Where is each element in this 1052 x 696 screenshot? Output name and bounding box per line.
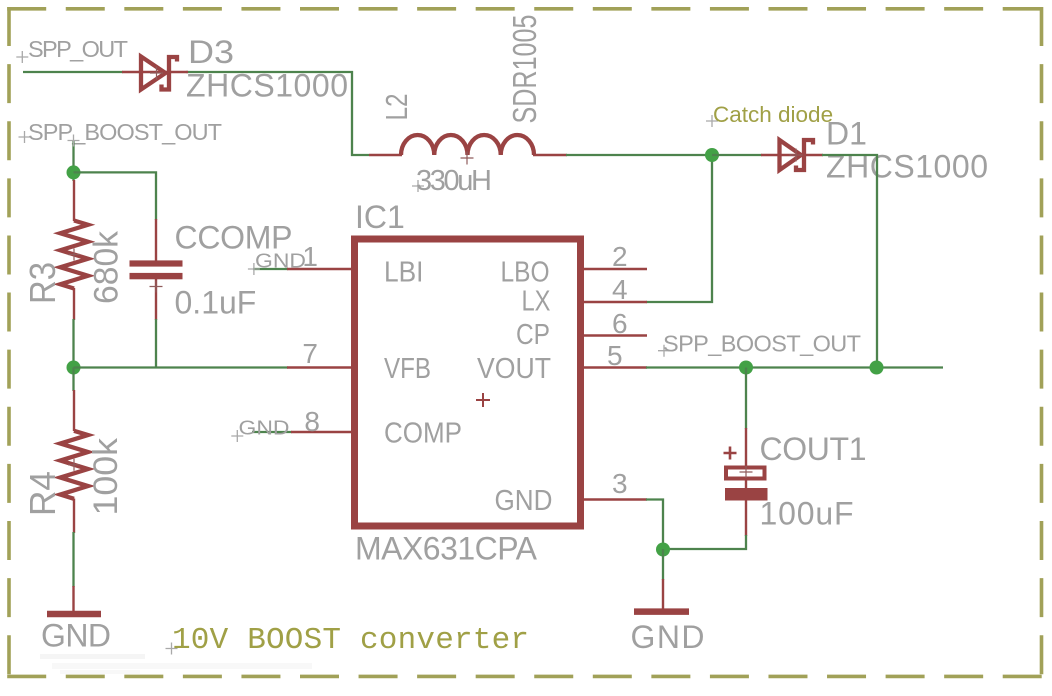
capacitor COUT1 (polarized) [724,428,768,536]
pin 4 LX lead [584,301,647,303]
diode D3 [122,57,188,90]
svg-text:SPP_BOOST_OUT: SPP_BOOST_OUT [28,119,222,145]
svg-text:0.1uF: 0.1uF [175,285,257,321]
ground symbol (right) [634,579,689,612]
svg-text:R3: R3 [22,262,63,304]
svg-text:4: 4 [612,274,628,305]
wire junction to ground [662,549,664,580]
svg-text:100k: 100k [87,437,125,516]
diode D1 (catch diode) [761,140,823,170]
wire net LX: L2 to junction to pin 4 [566,155,712,302]
svg-text:6: 6 [612,308,628,339]
wire net SPP_OUT left segment [23,71,123,73]
pin 6 CP lead [584,334,647,336]
wire COUT1 bottom branch [663,535,746,549]
svg-text:COMP: COMP [384,418,462,450]
svg-text:GND: GND [255,250,306,273]
pin 1 LBI stub [253,268,351,270]
svg-text:3: 3 [612,468,628,499]
wire net VFB [74,366,289,368]
svg-text:10V BOOST converter: 10V BOOST converter [172,623,529,658]
wire to CCOMP branch [74,172,157,220]
wire R3 to VFB junction [72,319,74,368]
wire net SPP_BOOST_OUT (VOUT) [646,366,943,368]
capacitor CCOMP [130,219,183,320]
svg-text:100uF: 100uF [760,496,854,532]
svg-text:330uH: 330uH [416,165,492,197]
svg-text:2: 2 [612,241,628,272]
svg-text:SPP_BOOST_OUT: SPP_BOOST_OUT [663,331,861,357]
pin 8 COMP stub [252,431,351,433]
svg-text:LX: LX [522,286,551,318]
svg-text:680k: 680k [88,230,126,304]
pin 7 VFB lead [287,366,351,368]
junction VOUT/D1 node [870,361,884,375]
faint erased text ghost [40,654,312,674]
svg-text:1: 1 [302,241,318,272]
svg-text:MAX631CPA: MAX631CPA [355,531,538,567]
svg-text:LBO: LBO [501,257,550,289]
resistor R3 [60,180,88,320]
svg-text:LBI: LBI [384,257,424,289]
svg-text:Catch diode: Catch diode [713,102,833,127]
svg-text:L2: L2 [379,94,414,121]
label 330uH [412,165,492,197]
junction LX node [705,148,719,162]
pin 2 LBO lead [584,268,647,270]
svg-text:COUT1: COUT1 [760,431,867,467]
junction VFB node [67,361,81,375]
label Catch diode [706,102,833,127]
wire pin 3 to lower junction [646,500,663,551]
net label SPP_BOOST_OUT (pin 5) [658,331,861,357]
svg-text:5: 5 [607,340,623,371]
svg-text:R4: R4 [22,471,63,516]
svg-text:VFB: VFB [384,353,431,385]
svg-text:7: 7 [302,338,318,369]
wire CCOMP to VFB net [155,319,157,368]
wire COUT1 top branch [745,368,747,430]
svg-text:8: 8 [304,406,320,437]
svg-text:IC1: IC1 [355,199,405,235]
inductor L2 [369,135,567,165]
pin 3 GND lead [584,498,647,500]
net label SPP_OUT [16,36,128,63]
IC1 origin cross [476,393,490,407]
svg-text:VOUT: VOUT [477,353,551,385]
ground symbol (left) [47,586,101,614]
junction GND node [656,543,670,557]
svg-text:ZHCS1000: ZHCS1000 [186,68,348,104]
svg-text:GND: GND [631,619,705,655]
wire D1 anode stub [712,154,762,156]
svg-text:D3: D3 [188,34,234,70]
svg-text:CP: CP [516,319,550,351]
IC1 box [355,239,581,526]
junction VOUT/COUT1 node [739,361,753,375]
svg-text:GND: GND [41,618,111,654]
pin 5 VOUT lead [584,366,647,368]
wire net SPP_BOOST_OUT from D1 down to VOUT line [822,155,877,368]
net label GND (pin 1) [248,250,306,276]
net label SPP_BOOST_OUT (left) [19,119,223,145]
svg-text:SDR1005: SDR1005 [506,15,543,124]
svg-text:GND: GND [495,485,553,517]
wire from SPP_BOOST_OUT label down to junction [72,140,74,181]
svg-text:GND: GND [239,417,290,440]
title 10V BOOST converter [166,623,530,658]
wire net SPP_OUT from D3 to L2 [186,72,369,155]
resistor R4 [60,390,88,533]
junction R3/CCOMP top node [67,165,81,179]
net label GND (pin 8) [231,417,289,443]
wire R4 to GND [72,532,74,587]
svg-text:SPP_OUT: SPP_OUT [28,36,128,62]
